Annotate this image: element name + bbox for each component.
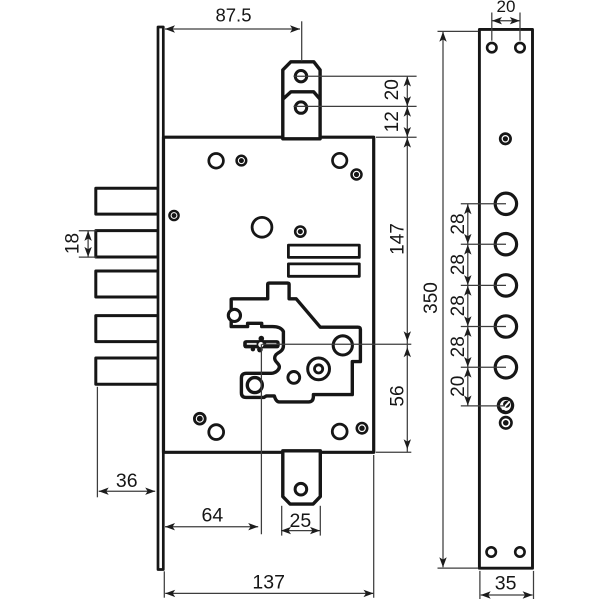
svg-text:25: 25 xyxy=(290,510,312,532)
cutout small hole xyxy=(288,372,300,384)
dim line 35 xyxy=(481,594,533,596)
top tab hole 1 xyxy=(295,71,306,82)
svg-text:64: 64 xyxy=(202,504,224,526)
right panel plate xyxy=(479,29,532,568)
cutout corner hole xyxy=(228,309,240,321)
ext lines 18 xyxy=(79,230,97,232)
top tab xyxy=(283,62,320,139)
screw bottom-left torx xyxy=(194,413,205,424)
center big hole xyxy=(252,217,272,237)
panel bottom hole left xyxy=(487,547,496,556)
arrows 28 column xyxy=(464,204,471,214)
centerline horizontal key xyxy=(262,343,411,345)
svg-text:28: 28 xyxy=(448,295,469,316)
top tab hole 2 xyxy=(295,102,306,113)
ext 350 top xyxy=(438,30,479,32)
panel hole 5 xyxy=(495,357,516,378)
ext lines 35 xyxy=(479,571,481,599)
arrows 137 xyxy=(165,590,175,597)
ext line hole2 xyxy=(294,105,417,107)
arrows 350 xyxy=(439,32,446,42)
panel hole 4 xyxy=(495,316,516,337)
screw bottom-right torx xyxy=(357,423,367,433)
arrows 18 xyxy=(84,231,91,241)
slot 1 xyxy=(288,245,359,257)
dim line 20/12/147/56 column xyxy=(406,76,408,452)
svg-text:28: 28 xyxy=(448,254,469,275)
cutout right hole xyxy=(333,336,352,355)
dim line 350 xyxy=(442,32,444,567)
ext line 87.5 right xyxy=(301,21,303,61)
svg-text:12: 12 xyxy=(382,111,403,132)
svg-text:350: 350 xyxy=(421,282,442,314)
lock cylinder cutout outline xyxy=(231,283,360,402)
ext line hole1 xyxy=(294,75,417,77)
svg-text:20: 20 xyxy=(448,376,469,397)
svg-text:87.5: 87.5 xyxy=(215,4,251,25)
screw hole top-right plain xyxy=(333,153,347,167)
centerline vertical key xyxy=(260,344,262,534)
ext line body bottom right xyxy=(376,451,412,453)
svg-text:28: 28 xyxy=(448,336,469,357)
bottom tab hole xyxy=(295,483,307,495)
dim line 28x4+20 column xyxy=(467,204,469,406)
svg-text:35: 35 xyxy=(495,573,517,595)
screw hole bottom-right plain xyxy=(332,424,347,439)
arrows 87.5 xyxy=(165,25,175,32)
screw hole top-left plain xyxy=(209,154,224,169)
panel low torx screw xyxy=(500,417,512,429)
cutout donut hole outer xyxy=(308,358,330,380)
bottom tab xyxy=(283,451,321,504)
arrows 56 xyxy=(404,347,411,357)
dim line 18 xyxy=(87,231,89,257)
lock body xyxy=(164,137,374,452)
ext 350 bottom xyxy=(438,567,479,569)
deadbolt 1 xyxy=(96,188,158,214)
screw hole bottom-left plain xyxy=(209,425,224,440)
arrows 35 xyxy=(481,591,491,598)
screw top-left torx xyxy=(237,156,247,166)
cutout lobe hole xyxy=(247,378,262,393)
svg-text:18: 18 xyxy=(63,233,84,254)
deadbolt 3 xyxy=(96,271,158,297)
dim line 64 xyxy=(165,526,258,528)
arrows 64 xyxy=(165,523,175,530)
svg-text:56: 56 xyxy=(388,385,409,406)
panel top hole right xyxy=(515,43,524,52)
arrows 147 xyxy=(404,138,411,148)
panel hole 3 xyxy=(495,275,516,296)
deadbolt 5 xyxy=(96,358,158,384)
panel keyed screw xyxy=(498,398,512,412)
dim line 20 top xyxy=(492,20,520,22)
panel hole 1 xyxy=(495,193,516,214)
faceplate bar xyxy=(158,27,163,570)
panel hole 2 xyxy=(495,234,516,255)
key bit symbol xyxy=(243,336,280,353)
arrows 20/12 tab xyxy=(404,77,411,87)
svg-text:20: 20 xyxy=(382,79,403,100)
dim line 137 xyxy=(165,592,373,594)
cutout donut hole inner xyxy=(315,365,323,373)
deadbolt 4 xyxy=(96,316,158,342)
ext lines 20 top xyxy=(491,13,493,41)
arrows 25 xyxy=(281,527,291,534)
panel bottom hole right xyxy=(515,547,524,556)
ext line 36 left xyxy=(96,387,98,498)
screw top-right torx xyxy=(352,170,362,180)
ext line body top xyxy=(376,136,417,138)
dim line 25 xyxy=(281,530,320,532)
slot 2 xyxy=(288,264,359,276)
svg-text:36: 36 xyxy=(116,470,138,492)
arrows 36 xyxy=(99,488,109,495)
panel mid torx screw xyxy=(500,134,510,144)
center torx xyxy=(295,227,305,237)
dim line 36 xyxy=(99,490,156,492)
top tab inner profile xyxy=(283,92,320,100)
ext lines 137 xyxy=(163,571,165,597)
panel circle ext lines xyxy=(461,203,506,205)
arrows 20 top xyxy=(492,17,502,24)
svg-text:137: 137 xyxy=(252,572,285,594)
deadbolt 2 xyxy=(96,231,158,257)
ext lines 25 xyxy=(281,506,283,536)
screw left-edge torx xyxy=(169,211,178,220)
panel top hole left xyxy=(487,43,496,52)
svg-text:28: 28 xyxy=(448,213,469,234)
svg-text:147: 147 xyxy=(388,223,409,255)
dim line 87.5 xyxy=(165,28,300,30)
svg-text:20: 20 xyxy=(497,0,516,16)
